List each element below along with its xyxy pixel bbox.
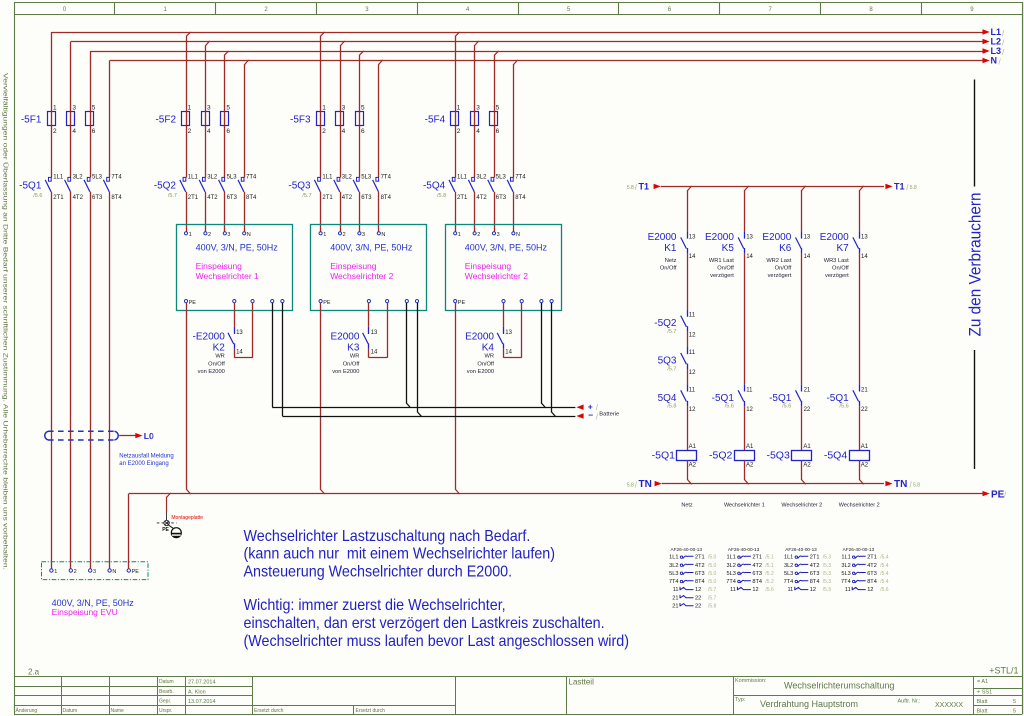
svg-text:/: / — [1002, 48, 1005, 57]
svg-text:4T2: 4T2 — [810, 563, 820, 569]
svg-text:21: 21 — [672, 595, 678, 601]
svg-text:/5.0: /5.0 — [708, 571, 717, 577]
svg-text:1L1: 1L1 — [188, 174, 199, 180]
svg-text:PE: PE — [323, 300, 331, 306]
svg-text:Netz: Netz — [665, 258, 677, 264]
svg-text:On/Off: On/Off — [343, 361, 360, 367]
svg-text:N: N — [991, 56, 998, 66]
svg-text:11: 11 — [689, 350, 696, 356]
svg-text:On/Off: On/Off — [208, 361, 225, 367]
wires group4 down to inverter box — [456, 192, 514, 232]
svg-text:-5F2: -5F2 — [155, 115, 176, 126]
svg-text:11: 11 — [689, 387, 696, 393]
svg-text:2T1: 2T1 — [810, 555, 820, 561]
svg-text:Typ:: Typ: — [735, 697, 746, 703]
svg-text:13: 13 — [689, 234, 696, 240]
svg-text:WR: WR — [350, 354, 359, 360]
svg-text:7T4: 7T4 — [669, 579, 679, 585]
svg-text:Wechselrichter 2: Wechselrichter 2 — [839, 503, 880, 509]
wire drop -5F3 pole 3 from L3 — [360, 51, 364, 178]
svg-text:-5F1: -5F1 — [21, 115, 42, 126]
label EVU feed — [52, 598, 135, 617]
wire drop -5F2 pole 2 from L2 — [206, 41, 210, 178]
wire bus L2 — [71, 37, 1005, 48]
svg-text:Wechselrichter 2: Wechselrichter 2 — [330, 271, 393, 281]
wire drop -5F3 pole 2 from L2 — [341, 41, 345, 178]
svg-text:Änderung: Änderung — [16, 707, 38, 714]
svg-text:-5F4: -5F4 — [425, 115, 446, 126]
svg-text:-5Q2: -5Q2 — [154, 181, 177, 192]
label Netzausfall Meldung — [119, 454, 173, 468]
svg-text:14: 14 — [861, 254, 868, 260]
svg-text:Einspeisung EVU: Einspeisung EVU — [52, 607, 118, 617]
svg-text:5.8: 5.8 — [627, 482, 634, 488]
svg-text:13: 13 — [236, 330, 243, 336]
svg-text:/5.3: /5.3 — [823, 563, 832, 569]
svg-text:6: 6 — [226, 128, 230, 135]
svg-text:WR3 Last: WR3 Last — [824, 258, 849, 264]
svg-text:AF26-40-00-13: AF26-40-00-13 — [843, 547, 875, 552]
svg-text:von E2000: von E2000 — [198, 369, 225, 375]
ground Montageplatte — [157, 493, 204, 538]
svg-text:5: 5 — [567, 7, 571, 13]
svg-text:+ SS1: + SS1 — [977, 690, 992, 696]
svg-text:= A1: = A1 — [977, 679, 988, 685]
svg-text:K2: K2 — [213, 342, 226, 353]
svg-text:5: 5 — [361, 104, 365, 111]
svg-text:/5.1: /5.1 — [765, 555, 774, 561]
right margin strip — [1023, 2, 1024, 714]
contactor main contacts -5Q2 — [154, 174, 257, 200]
svg-text:Datum: Datum — [159, 679, 174, 685]
wire battery plus bus — [272, 303, 619, 418]
svg-text:Gepr.: Gepr. — [159, 698, 171, 704]
svg-text:/5.7: /5.7 — [667, 366, 676, 372]
svg-text:6T3: 6T3 — [361, 195, 372, 201]
coil -5Q1 — [652, 444, 697, 469]
svg-text:5.8: 5.8 — [913, 482, 920, 488]
svg-text:A1: A1 — [861, 444, 869, 450]
svg-text:3: 3 — [365, 7, 369, 13]
svg-text:8T4: 8T4 — [695, 579, 705, 585]
contact E2000 K7 — [820, 231, 869, 279]
inverter infeed box 2 — [311, 225, 427, 311]
svg-text:2: 2 — [264, 7, 268, 13]
svg-text:3L2: 3L2 — [784, 563, 793, 569]
svg-text:11: 11 — [845, 587, 851, 593]
svg-text:8T4: 8T4 — [752, 579, 762, 585]
svg-text:WR2 Last: WR2 Last — [766, 258, 791, 264]
svg-text:14: 14 — [236, 350, 243, 356]
svg-text:Ersetzt durch: Ersetzt durch — [254, 708, 284, 714]
svg-text:/5.4: /5.4 — [880, 579, 889, 585]
svg-text:4: 4 — [466, 7, 470, 13]
svg-text:Blatt: Blatt — [977, 699, 988, 705]
svg-text:1L1: 1L1 — [669, 555, 678, 561]
svg-text:E2000: E2000 — [705, 232, 734, 243]
fuse group -5F1 — [21, 104, 96, 135]
svg-text:8T4: 8T4 — [810, 579, 820, 585]
svg-text:22: 22 — [861, 407, 868, 413]
svg-text:Wechselrichter 1: Wechselrichter 1 — [724, 503, 765, 509]
svg-text:12: 12 — [689, 407, 696, 413]
wire coil -5Q1 to TN — [688, 460, 692, 484]
svg-text:/5.1: /5.1 — [765, 563, 774, 569]
wire coil -5Q2 to TN — [745, 460, 749, 484]
svg-text:4: 4 — [342, 128, 346, 135]
svg-text:K6: K6 — [779, 243, 792, 254]
wire coil -5Q3 to TN — [802, 460, 806, 484]
svg-text:1: 1 — [164, 7, 168, 13]
svg-text:1: 1 — [323, 232, 326, 238]
svg-text:12: 12 — [695, 587, 701, 593]
svg-text:6T3: 6T3 — [867, 571, 877, 577]
svg-text:Urspr.: Urspr. — [159, 708, 172, 714]
svg-text:5: 5 — [226, 104, 230, 111]
svg-text:8: 8 — [869, 7, 873, 13]
label +STL/1 — [989, 666, 1018, 676]
svg-text:+STL/1: +STL/1 — [989, 666, 1018, 676]
svg-text:2T1: 2T1 — [188, 195, 199, 201]
wire drop -5F1 pole 1 from L1 — [51, 32, 53, 178]
svg-text:1: 1 — [458, 232, 461, 238]
svg-text:-5Q4: -5Q4 — [423, 181, 446, 192]
svg-text:L3: L3 — [991, 46, 1002, 56]
svg-text:3L2: 3L2 — [207, 174, 218, 180]
svg-text:K5: K5 — [722, 243, 735, 254]
wire drop -5F1 pole 2 from L2 — [70, 42, 72, 178]
svg-text:4T2: 4T2 — [207, 195, 218, 201]
auxiliary contact E2000 K4 — [465, 303, 522, 376]
svg-text:21: 21 — [804, 387, 811, 393]
note text block — [244, 527, 629, 650]
svg-text:1L1: 1L1 — [322, 174, 333, 180]
label Zu den Verbrauchern — [965, 80, 984, 470]
svg-text:On/Off: On/Off — [775, 265, 792, 271]
wire column2 segments — [744, 253, 746, 450]
svg-text:N: N — [516, 232, 520, 238]
svg-text:3L2: 3L2 — [669, 563, 678, 569]
wire PE terminal to PE bus — [128, 494, 130, 569]
contactor main contacts -5Q3 — [288, 174, 391, 200]
svg-text:/5.0: /5.0 — [708, 579, 717, 585]
svg-text:3L2: 3L2 — [727, 563, 736, 569]
svg-text:3: 3 — [476, 104, 480, 111]
svg-text:11: 11 — [689, 313, 696, 319]
svg-text:1: 1 — [189, 232, 192, 238]
svg-text:5: 5 — [1013, 708, 1016, 714]
svg-text:5.8: 5.8 — [627, 185, 634, 191]
svg-text:13: 13 — [371, 330, 378, 336]
wire drop -5F4 pole 4 from N — [514, 60, 518, 178]
wire PE from box 1 to PE bus — [187, 303, 191, 494]
svg-text:4T2: 4T2 — [867, 563, 877, 569]
svg-text:Kommission:: Kommission: — [735, 678, 767, 684]
wire bus TN — [627, 479, 920, 490]
svg-text:4T2: 4T2 — [342, 195, 353, 201]
svg-text:8T4: 8T4 — [111, 195, 122, 201]
wire T1 drop column 2 — [745, 186, 749, 232]
svg-text:WR: WR — [485, 354, 494, 360]
svg-text:8T4: 8T4 — [246, 195, 257, 201]
svg-text:12: 12 — [689, 332, 696, 338]
svg-text:Netz: Netz — [681, 503, 693, 509]
svg-text:PE: PE — [189, 300, 197, 306]
wire PE from box 3 to PE bus — [456, 303, 460, 494]
wire PE from box 2 to PE bus — [321, 303, 325, 494]
svg-text:3L2: 3L2 — [73, 174, 84, 180]
contactor main contacts -5Q4 — [423, 174, 526, 200]
svg-text:6T3: 6T3 — [695, 571, 705, 577]
wire column4 segments — [859, 253, 861, 450]
svg-text:Wechselrichter 1: Wechselrichter 1 — [196, 271, 259, 281]
svg-text:2: 2 — [53, 128, 57, 135]
svg-text:Zu den Verbrauchern: Zu den Verbrauchern — [965, 192, 984, 336]
svg-text:/5.6: /5.6 — [765, 587, 774, 593]
coil -5Q2 — [709, 444, 754, 469]
svg-text:27.07.2014: 27.07.2014 — [188, 680, 216, 686]
svg-text:-5Q1: -5Q1 — [712, 393, 735, 404]
svg-text:4: 4 — [207, 128, 211, 135]
svg-text:400V, 3/N, PE, 50Hz: 400V, 3/N, PE, 50Hz — [196, 243, 279, 253]
svg-text:5: 5 — [1013, 699, 1016, 705]
wire drop -5F1 pole 4 from N — [109, 61, 111, 178]
svg-text:A2: A2 — [746, 463, 754, 469]
inverter infeed box 3 — [446, 225, 562, 311]
svg-text:/: / — [635, 183, 638, 192]
svg-text:400V, 3/N, PE, 50Hz: 400V, 3/N, PE, 50Hz — [330, 243, 413, 253]
auxiliary contact -5Q1 col3 — [769, 384, 811, 413]
svg-text:/5.4: /5.4 — [880, 563, 889, 569]
svg-text:A2: A2 — [689, 463, 697, 469]
svg-text:-5Q1: -5Q1 — [826, 393, 849, 404]
svg-text:/5.7: /5.7 — [708, 587, 717, 593]
column numbers — [63, 7, 975, 13]
svg-text:/5.6: /5.6 — [782, 404, 791, 410]
svg-text:Wechselrichter Lastzuschaltung: Wechselrichter Lastzuschaltung nach Beda… — [244, 527, 531, 545]
wire bus L3 — [90, 46, 1005, 57]
contact E2000 K6 — [762, 231, 811, 279]
svg-text:5L3: 5L3 — [784, 571, 793, 577]
svg-text:-5Q3: -5Q3 — [766, 450, 790, 462]
svg-text:11: 11 — [673, 587, 679, 593]
svg-text:A2: A2 — [861, 463, 869, 469]
auxiliary contact E2000 K2 — [193, 303, 253, 376]
svg-text:2T1: 2T1 — [53, 195, 64, 201]
svg-text:/5.6: /5.6 — [840, 404, 849, 410]
svg-text:AF26-40-00-13: AF26-40-00-13 — [728, 547, 760, 552]
wire drop -5F2 pole 1 from L1 — [187, 32, 191, 178]
wire drop -5F2 pole 3 from L3 — [225, 51, 229, 178]
svg-text:6: 6 — [361, 128, 365, 135]
svg-text:TN: TN — [639, 479, 652, 490]
contact E2000 K1 — [648, 231, 697, 271]
svg-text:1: 1 — [53, 104, 57, 111]
svg-text:PE: PE — [991, 489, 1005, 500]
svg-text:/5.3: /5.3 — [823, 579, 832, 585]
svg-text:6: 6 — [668, 7, 672, 13]
svg-text:6T3: 6T3 — [92, 195, 103, 201]
svg-text:A1: A1 — [803, 444, 811, 450]
svg-text:A2: A2 — [803, 463, 811, 469]
svg-text:3L2: 3L2 — [476, 174, 487, 180]
svg-text:(Wechselrichter muss laufen be: (Wechselrichter muss laufen bevor Last a… — [244, 632, 629, 650]
wire drop -5F4 pole 2 from L2 — [475, 41, 479, 178]
svg-text:L1: L1 — [991, 27, 1002, 37]
svg-text:9: 9 — [970, 7, 974, 13]
svg-text:8T4: 8T4 — [515, 195, 526, 201]
svg-text:E2000: E2000 — [820, 232, 849, 243]
svg-text:6: 6 — [92, 128, 96, 135]
svg-text:1L1: 1L1 — [841, 555, 850, 561]
wire drop -5F4 pole 1 from L1 — [456, 32, 460, 178]
svg-text:K7: K7 — [836, 243, 849, 254]
svg-text:5L3: 5L3 — [841, 571, 850, 577]
svg-text:0: 0 — [63, 7, 67, 13]
svg-text:Einspeisung: Einspeisung — [196, 261, 243, 271]
svg-text:2: 2 — [343, 232, 346, 238]
svg-text:22: 22 — [804, 407, 811, 413]
svg-text:/5.6: /5.6 — [880, 587, 889, 593]
svg-text:22: 22 — [695, 595, 701, 601]
svg-text:Blatt: Blatt — [977, 708, 988, 714]
svg-text:WR1 Last: WR1 Last — [709, 258, 734, 264]
svg-text:6T3: 6T3 — [227, 195, 238, 201]
svg-text:K4: K4 — [482, 342, 495, 353]
svg-text:13: 13 — [505, 330, 512, 336]
title block — [14, 676, 1022, 714]
wires group1 down to EVU terminals — [52, 192, 110, 569]
svg-text:7T4: 7T4 — [111, 174, 122, 180]
svg-text:L2: L2 — [991, 37, 1002, 47]
svg-text:/5.3: /5.3 — [823, 571, 832, 577]
contact cross-reference tables — [669, 547, 889, 610]
svg-text:5L3: 5L3 — [92, 174, 103, 180]
svg-text:12: 12 — [810, 587, 816, 593]
svg-text:3L2: 3L2 — [841, 563, 850, 569]
svg-text:/5.4: /5.4 — [880, 555, 889, 561]
svg-text:von E2000: von E2000 — [332, 369, 359, 375]
svg-text:7T4: 7T4 — [841, 579, 851, 585]
svg-text:/5.2: /5.2 — [765, 571, 774, 577]
svg-text:Vervielfältigungen oder Überla: Vervielfältigungen oder Überlassung an D… — [2, 73, 10, 570]
wire drop -5F2 pole 4 from N — [245, 60, 249, 178]
contactor main contacts -5Q1 — [19, 174, 122, 200]
svg-text:6T3: 6T3 — [752, 571, 762, 577]
svg-text:Ersetzt durch: Ersetzt durch — [356, 708, 386, 714]
wire drop -5F3 pole 1 from L1 — [321, 32, 325, 178]
svg-text:4T2: 4T2 — [476, 195, 487, 201]
svg-text:/5.8: /5.8 — [667, 404, 676, 410]
svg-text:7T4: 7T4 — [246, 174, 257, 180]
svg-text:Ansteuerung Wechselrichter dur: Ansteuerung Wechselrichter durch E2000. — [244, 563, 513, 581]
svg-text:5: 5 — [496, 104, 500, 111]
svg-text:N: N — [381, 232, 385, 238]
auxiliary contact -5Q2 — [654, 310, 696, 339]
svg-text:7T4: 7T4 — [726, 579, 736, 585]
svg-text:1: 1 — [322, 104, 326, 111]
svg-text:Bearb.: Bearb. — [159, 689, 174, 695]
svg-text:verzögert: verzögert — [768, 273, 792, 279]
svg-text:13.07.2014: 13.07.2014 — [188, 699, 216, 705]
svg-text:Datum: Datum — [63, 708, 78, 714]
svg-text:5L3: 5L3 — [496, 174, 507, 180]
svg-text:-5Q1: -5Q1 — [652, 450, 676, 462]
svg-text:8T4: 8T4 — [381, 195, 392, 201]
svg-text:/: / — [151, 432, 154, 441]
svg-text:Wechselrichter 2: Wechselrichter 2 — [781, 503, 822, 509]
svg-text:N: N — [247, 232, 251, 238]
cable marker Netzausfall — [45, 431, 155, 441]
svg-text:AF26-40-00-13: AF26-40-00-13 — [671, 547, 703, 552]
svg-text:5Q3: 5Q3 — [658, 356, 677, 367]
svg-text:Wechselrichter 2: Wechselrichter 2 — [465, 271, 528, 281]
svg-text:On/Off: On/Off — [832, 265, 849, 271]
svg-text:On/Off: On/Off — [717, 265, 734, 271]
svg-text:TN: TN — [894, 479, 907, 490]
svg-text:3: 3 — [227, 232, 230, 238]
svg-text:/5.8: /5.8 — [437, 193, 446, 199]
svg-text:1L1: 1L1 — [784, 555, 793, 561]
svg-text:−: − — [588, 410, 593, 420]
svg-text:-5Q4: -5Q4 — [824, 450, 848, 462]
svg-text:6T3: 6T3 — [496, 195, 507, 201]
svg-text:11: 11 — [746, 387, 753, 393]
svg-text:XXXXXX: XXXXXX — [935, 702, 963, 709]
fuse group -5F4 — [425, 104, 500, 135]
svg-text:2: 2 — [74, 569, 77, 575]
svg-text:1: 1 — [54, 569, 57, 575]
svg-text:/5.6: /5.6 — [725, 404, 734, 410]
svg-text:2T1: 2T1 — [695, 555, 705, 561]
svg-text:/5.8: /5.8 — [708, 603, 717, 609]
svg-text:4: 4 — [476, 128, 480, 135]
svg-text:E2000: E2000 — [465, 331, 494, 342]
svg-text:K3: K3 — [347, 342, 360, 353]
left margin copyright text — [2, 73, 10, 570]
svg-text:400V, 3/N, PE, 50Hz: 400V, 3/N, PE, 50Hz — [465, 243, 548, 253]
auxiliary contact -5Q1 col2 — [712, 384, 754, 413]
wire bus T1 — [627, 182, 917, 193]
svg-text:Verdrahtung Hauptstrom: Verdrahtung Hauptstrom — [760, 699, 858, 709]
svg-text:14: 14 — [505, 350, 512, 356]
svg-text:einschalten, dan erst verzöger: einschalten, dan erst verzögert den Last… — [244, 614, 605, 632]
wire bus L1 — [51, 27, 1005, 38]
auxiliary contact E2000 K3 — [330, 303, 387, 376]
svg-text:/5.7: /5.7 — [302, 193, 311, 199]
svg-text:7T4: 7T4 — [784, 579, 794, 585]
svg-text:3: 3 — [362, 232, 365, 238]
inverter infeed box 1 — [177, 225, 293, 311]
svg-text:1L1: 1L1 — [457, 174, 468, 180]
svg-text:4T2: 4T2 — [695, 563, 705, 569]
svg-text:WR: WR — [215, 354, 224, 360]
svg-text:-5Q1: -5Q1 — [19, 181, 42, 192]
svg-text:8T4: 8T4 — [867, 579, 877, 585]
svg-text:11: 11 — [787, 587, 793, 593]
svg-text:-5F3: -5F3 — [290, 115, 311, 126]
coil -5Q4 — [824, 444, 870, 469]
auxiliary contact 5Q4 — [658, 384, 697, 413]
svg-text:2: 2 — [208, 232, 211, 238]
svg-text:3: 3 — [497, 232, 500, 238]
wire T1 drop column 1 — [688, 186, 692, 232]
svg-text:6: 6 — [496, 128, 500, 135]
svg-text:3: 3 — [72, 104, 76, 111]
svg-text:7: 7 — [769, 7, 773, 13]
svg-text:T1: T1 — [639, 182, 650, 192]
svg-text:14: 14 — [689, 254, 696, 260]
